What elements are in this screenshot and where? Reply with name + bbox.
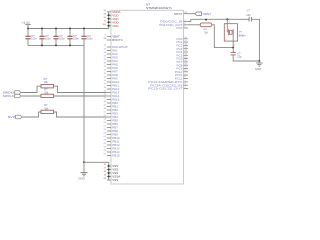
junction GND node (83, 161, 85, 163)
pin PB15 (pin 66) (104, 154, 120, 158)
junction bottom rail (69, 44, 71, 46)
svg-text:C?: C? (247, 10, 251, 13)
svg-text:100n: 100n (45, 38, 51, 41)
pin PB6 (pin 56) (104, 122, 119, 126)
svg-text:99: 99 (104, 178, 107, 180)
wire GND to VSS pins (84, 161, 109, 163)
pin PB12 (pin 63) (104, 143, 120, 147)
svg-text:26: 26 (104, 56, 107, 58)
svg-text:PB15: PB15 (112, 154, 120, 158)
capacitor C4 100n (67, 29, 79, 46)
svg-text:22p: 22p (237, 56, 242, 59)
pin PB13 (pin 64) (104, 147, 120, 151)
svg-text:59: 59 (104, 133, 107, 135)
wire 5V0 (22, 112, 41, 117)
pin PA15 (pin 42) (104, 98, 120, 102)
wire C6 to corner (251, 19, 259, 61)
svg-text:38: 38 (104, 87, 107, 89)
junction rail (69, 28, 71, 30)
svg-text:65: 65 (104, 150, 107, 152)
capacitor C6 22p (246, 10, 251, 22)
svg-text:61: 61 (104, 136, 107, 138)
svg-text:23: 23 (104, 45, 107, 47)
pin PC15-OSC32_OUT (pin 4) (148, 87, 188, 91)
pin PC9 (pin 79) (176, 67, 187, 71)
junction VSS bus (108, 172, 110, 174)
wire GND drop (83, 45, 85, 162)
junction on OSC rail (205, 19, 207, 21)
junction VDD bus 75 (108, 21, 110, 23)
resistor R3 10k (41, 104, 54, 113)
pin PC12 (pin 8) (175, 77, 188, 81)
svg-text:27: 27 (104, 168, 107, 170)
wire R4 down (212, 25, 233, 48)
wire +3.3V rail (28, 28, 109, 30)
svg-text:75: 75 (104, 21, 107, 23)
wire VDD bus (108, 12, 110, 29)
svg-text:1M: 1M (204, 32, 207, 35)
wire SWDIO to U1 (54, 86, 107, 92)
svg-text:48: 48 (104, 108, 107, 110)
junction VDD bus 50 (108, 18, 110, 20)
svg-text:63: 63 (104, 143, 107, 145)
svg-text:6: 6 (105, 35, 107, 37)
pin PC14-OSC32_IN (pin 3) (150, 83, 188, 87)
svg-text:PC15-OSC32_OUT: PC15-OSC32_OUT (148, 87, 182, 91)
pin PC1 (pin 17) (176, 40, 187, 44)
svg-text:46: 46 (104, 101, 107, 103)
net label SWDIO (3, 91, 22, 95)
svg-text:100n: 100n (87, 38, 93, 41)
pin PA3 (pin 26) (104, 56, 118, 60)
pin PC8 (pin 78) (176, 63, 187, 67)
ground GND1 (78, 162, 87, 180)
svg-text:34: 34 (104, 77, 107, 79)
svg-text:56: 56 (104, 122, 107, 124)
resistor R4 1M (200, 23, 212, 35)
pin PA13 (pin 39) (104, 91, 120, 95)
power symbol +3.3V (22, 21, 31, 29)
pin VSS (pin 27) (104, 168, 119, 172)
svg-text:Y?: Y? (239, 30, 243, 34)
pin PB11 (pin 62) (104, 140, 120, 144)
junction bottom rail (55, 44, 57, 46)
pin PB2 (pin 48) (104, 108, 119, 112)
pin PB4 (pin 52) (104, 115, 119, 119)
capacitor C1 100n (25, 29, 37, 46)
junction VSS bus (108, 169, 110, 171)
wire SWDIO (22, 86, 42, 92)
capacitor C3 100n (53, 29, 65, 46)
pin VDD (pin 75) (104, 20, 120, 24)
pin PC5 (pin 63) (176, 53, 187, 57)
pin PA14 (pin 41) (104, 94, 120, 98)
svg-text:8MHz: 8MHz (239, 34, 246, 38)
pin PB14 (pin 65) (104, 150, 120, 154)
wire NRST (188, 13, 195, 15)
svg-text:94: 94 (104, 38, 107, 40)
svg-text:42: 42 (104, 98, 107, 100)
wire C7 to GND rail (233, 55, 259, 61)
pin VSS (pin 49) (104, 171, 119, 175)
svg-text:100n: 100n (73, 38, 79, 41)
pin PC0 (pin 16) (176, 37, 187, 41)
svg-text:30: 30 (104, 63, 107, 65)
pin PA2 (pin 25) (104, 52, 118, 56)
wire VSS bus (108, 162, 110, 180)
IC U1 STM32F103VETx body (111, 10, 184, 184)
svg-text:SWCLK: SWCLK (3, 94, 15, 98)
svg-text:100: 100 (102, 24, 106, 26)
pin PB8 (pin 58) (104, 129, 119, 133)
svg-text:37: 37 (104, 84, 107, 86)
junction bottom rail (41, 44, 43, 46)
pin PB10 (pin 61) (104, 136, 120, 140)
svg-text:VDD: VDD (112, 24, 119, 28)
svg-text:51: 51 (104, 112, 107, 114)
IC U1 reference and value (146, 3, 172, 11)
pin VDD (pin 50) (104, 17, 120, 21)
svg-text:47: 47 (104, 105, 107, 107)
svg-text:22: 22 (104, 10, 107, 12)
svg-text:PC0: PC0 (176, 26, 182, 30)
pin PB3 (pin 51) (104, 112, 119, 116)
pin PA11 (pin 37) (104, 84, 120, 88)
wire crystal right (232, 35, 234, 47)
pin PB1 (pin 47) (104, 105, 119, 109)
pin VDD (pin 100) (102, 24, 119, 28)
pin PA12 (pin 38) (104, 87, 120, 91)
svg-text:NRST: NRST (174, 12, 182, 16)
net label SWCLK (3, 94, 22, 98)
pin VDD (pin 28) (104, 13, 120, 17)
svg-text:58: 58 (104, 129, 107, 131)
svg-text:STM32F103VETx: STM32F103VETx (146, 6, 172, 10)
junction GND2 (258, 60, 260, 62)
svg-text:BOOT0: BOOT0 (112, 38, 123, 42)
svg-text:GND: GND (255, 67, 261, 71)
wire 5V0 to U1 (54, 112, 107, 117)
pin PB9 (pin 59) (104, 133, 119, 137)
pin PC13-TAMPER-RTC (pin 2) (148, 80, 188, 84)
pin PC0 (pin 15) (176, 26, 187, 30)
svg-text:22p: 22p (246, 14, 251, 17)
pin PA6 (pin 31) (104, 66, 118, 70)
junction rail (83, 28, 85, 30)
pin PA0-WKUP (pin 23) (104, 45, 128, 49)
net label 5V0 (8, 115, 22, 119)
pin PD1/OSC_OUT (pin 13) (159, 23, 188, 27)
svg-text:33: 33 (104, 73, 107, 75)
junction OSC_IN / crystal (226, 18, 228, 20)
pin PB0 (pin 46) (104, 101, 119, 105)
svg-text:VSS: VSS (112, 178, 118, 182)
ground GND2 (255, 61, 263, 71)
wire OSC_OUT (188, 24, 200, 26)
capacitor C7 22p (231, 48, 242, 59)
junction VDD bus 100 (108, 25, 110, 27)
svg-text:35: 35 (104, 80, 107, 82)
pin NRST (pin 14) (174, 12, 188, 16)
pin VBAT (pin 6) (105, 35, 120, 39)
pin PA10 (pin 35) (104, 80, 120, 84)
pin PA5 (pin 30) (104, 63, 118, 67)
pin PD0/OSC_IN (pin 12) (160, 20, 188, 24)
svg-text:49: 49 (104, 171, 107, 173)
svg-text:GND: GND (78, 176, 84, 180)
svg-text:5V0: 5V0 (8, 115, 16, 119)
svg-text:NRST: NRST (203, 12, 212, 16)
svg-text:29: 29 (104, 59, 107, 61)
net label NRST (195, 12, 211, 16)
pin BOOT0 (pin 94) (104, 38, 123, 42)
pin PC2 (pin 18) (176, 44, 187, 48)
svg-text:24: 24 (104, 49, 107, 51)
wire crystal left (226, 19, 228, 32)
svg-text:10k: 10k (44, 81, 49, 84)
junction rail (55, 28, 57, 30)
pin PC10 (pin 80) (175, 70, 188, 74)
svg-text:10: 10 (104, 164, 107, 166)
svg-text:57: 57 (104, 126, 107, 128)
svg-text:100n: 100n (31, 38, 37, 41)
svg-text:50: 50 (104, 17, 107, 19)
svg-text:62: 62 (104, 140, 107, 142)
wire OSC_IN (188, 19, 249, 21)
pin PA1 (pin 24) (104, 49, 118, 53)
junction VSS bus (108, 165, 110, 167)
pin PA7 (pin 32) (104, 70, 118, 74)
svg-text:28: 28 (104, 14, 107, 16)
wire SWCLK to U1 (54, 95, 107, 97)
pin PC3 (pin 33) (176, 47, 187, 51)
svg-text:66: 66 (104, 154, 107, 156)
svg-text:32: 32 (104, 70, 107, 72)
junction VSS bus (108, 176, 110, 178)
svg-text:53: 53 (104, 119, 107, 121)
wire cap bottom rail (28, 44, 84, 46)
pin VDDA (pin 22) (104, 10, 121, 14)
junction crystal/R4 (232, 47, 234, 49)
pin PB7 (pin 57) (104, 126, 119, 130)
svg-text:64: 64 (104, 147, 107, 149)
svg-text:2: 2 (234, 44, 236, 46)
capacitor C5 100n (81, 29, 93, 46)
svg-text:74: 74 (104, 175, 107, 177)
pin PC6 (pin 65) (176, 57, 187, 61)
junction VDD bus 28 (108, 14, 110, 16)
pin PC11 (pin 7) (175, 73, 188, 77)
crystal Y1 8MHz (224, 24, 246, 41)
resistor R2 10k (41, 88, 54, 97)
capacitor C2 100n (39, 29, 51, 46)
wire SWCLK (22, 95, 42, 97)
pin PA9 (pin 34) (104, 77, 118, 81)
pin VSS (pin 10) (104, 164, 119, 168)
svg-text:100n: 100n (59, 38, 65, 41)
junction +3.3V (27, 28, 29, 30)
pin VSS (pin 99) (104, 178, 119, 182)
pin PC7 (pin 66) (176, 60, 187, 64)
svg-text:31: 31 (104, 66, 107, 68)
pin PA8 (pin 33) (104, 73, 118, 77)
pin PA4 (pin 29) (104, 59, 118, 63)
pin VSSA (pin 74) (104, 175, 121, 179)
pin PB5 (pin 53) (104, 119, 119, 123)
resistor R1 10k (41, 78, 54, 88)
svg-text:25: 25 (104, 52, 107, 54)
pin PC4 (pin 34) (176, 50, 187, 54)
junction rail (41, 28, 43, 30)
